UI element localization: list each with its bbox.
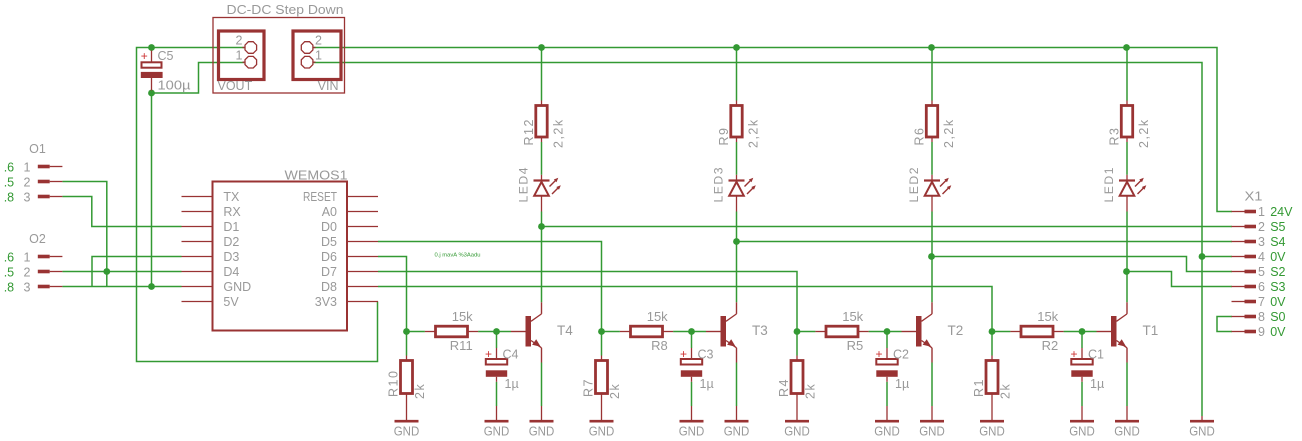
wire base row R5 left: [796, 332, 798, 356]
junction at 151,286: [148, 283, 155, 290]
LED LED2 cathode bar: [924, 179, 940, 181]
svg-text:R1: R1: [972, 378, 986, 397]
wire O2 pin2 to WEMOS D4: [62, 271, 181, 273]
svg-text:2,2k: 2,2k: [552, 118, 566, 148]
connector VOUT box: [219, 31, 265, 80]
svg-text:2k: 2k: [608, 383, 622, 399]
ground below R10: [395, 420, 419, 423]
svg-text:R2: R2: [1042, 338, 1059, 353]
resistor R9 body: [731, 106, 742, 138]
svg-text:GND: GND: [724, 425, 750, 439]
ground below C4: [496, 406, 498, 420]
LED LED2 arrows: [940, 180, 947, 187]
wire GND row O2 pin3 to WEMOS GND: [62, 286, 181, 288]
svg-text:.5: .5: [4, 175, 14, 189]
transistor T4 base bar: [526, 316, 532, 347]
LED LED4 pins: [541, 175, 543, 181]
pin WEMOS1 GND: [182, 286, 213, 288]
wire 24V rail to R9: [736, 48, 738, 101]
svg-text:2k: 2k: [999, 383, 1013, 399]
svg-text:1µ: 1µ: [1090, 377, 1104, 391]
pin WEMOS1 D3: [182, 256, 213, 258]
resistor R2 body: [1021, 326, 1053, 337]
pin X1 3 net S4: [1232, 241, 1245, 243]
capacitor C2 negative plate: [876, 370, 897, 377]
capacitor C3 bottom pin: [691, 377, 693, 382]
transistor T1 collector pin: [1126, 302, 1128, 314]
svg-text:+: +: [141, 49, 148, 63]
svg-text:D8: D8: [321, 280, 337, 294]
wire X1 pin4 0V stub: [1202, 256, 1232, 258]
svg-text:VOUT: VOUT: [218, 79, 253, 93]
pin WEMOS1 D0: [347, 226, 378, 228]
LED LED2 triangle: [925, 182, 940, 196]
resistor R12 pins: [541, 101, 543, 106]
pin WEMOS1 3V3: [347, 301, 378, 303]
transistor T2 collector pin: [931, 302, 933, 314]
LED LED4 triangle: [534, 182, 549, 196]
wire T4 emitter to GND: [541, 363, 543, 407]
resistor R7 pins: [601, 356, 603, 361]
svg-text:GND: GND: [223, 280, 251, 294]
junction at 1126,271: [1123, 268, 1130, 275]
svg-text:.6: .6: [4, 160, 14, 174]
svg-text:T3: T3: [752, 323, 768, 338]
svg-text:1: 1: [236, 49, 243, 63]
svg-text:A0: A0: [322, 205, 337, 219]
resistor R6 body: [926, 106, 937, 138]
wire S5 net T4 collector to X1 pin2: [542, 226, 1233, 228]
LED LED3 triangle: [729, 182, 744, 196]
svg-text:D7: D7: [321, 265, 337, 279]
svg-text:2: 2: [1258, 220, 1265, 234]
wire base row R11 left: [406, 332, 408, 356]
svg-text:D4: D4: [223, 265, 239, 279]
svg-text:D2: D2: [223, 235, 239, 249]
pin WEMOS1 D2: [182, 241, 213, 243]
junction at 541,47: [538, 44, 545, 51]
ground 0V right: [1201, 416, 1203, 420]
pad VOUT 1: [243, 61, 245, 63]
wire 0V rail from DC-DC VIN pin1 to right side down to GND: [314, 63, 1202, 417]
resistor R7 body: [596, 361, 608, 394]
svg-text:GND: GND: [979, 425, 1005, 439]
wire S2 net T2 collector to X1 pin5: [932, 257, 1233, 272]
wire WEMOS D3 to left riser: [92, 257, 182, 287]
svg-text:GND: GND: [1069, 425, 1095, 439]
junction at 1126,47: [1123, 44, 1130, 51]
svg-text:3V3: 3V3: [315, 295, 337, 309]
resistor R8 body: [631, 326, 663, 337]
pin X1 7 net 0V: [1232, 301, 1245, 303]
wire C5 bottom down to GND net row: [151, 93, 153, 287]
capacitor C1 negative plate: [1071, 370, 1092, 377]
ground below T1: [1126, 406, 1128, 420]
wire base row R2 left: [991, 332, 993, 356]
LED LED4 arrows: [550, 180, 557, 187]
pad VIN 1: [313, 61, 315, 63]
pin WEMOS1 D8: [347, 286, 378, 288]
wire R6 to LED2: [931, 142, 933, 175]
wire C2 bottom to GND: [886, 382, 888, 406]
wire base row R11 right to T4 base: [478, 331, 511, 333]
LED LED2 pins: [931, 175, 933, 181]
svg-text:.8: .8: [4, 280, 14, 294]
module DC1 outline DC-DC Step Down: [213, 18, 345, 94]
transistor T2 emitter: [922, 341, 933, 348]
svg-text:GND: GND: [529, 425, 555, 439]
svg-text:2: 2: [24, 265, 31, 279]
ground below T3: [736, 406, 738, 420]
svg-text:O1: O1: [29, 142, 46, 156]
pin WEMOS1 D7: [347, 271, 378, 273]
pin WEMOS1 D1: [182, 226, 213, 228]
wire O1 pin3 to WEMOS D1: [62, 197, 181, 227]
wire 24V rail to R12: [541, 48, 543, 101]
svg-text:6: 6: [1258, 280, 1265, 294]
svg-text:15k: 15k: [452, 309, 473, 324]
wire C3 bottom to GND: [691, 382, 693, 406]
svg-text:15k: 15k: [1037, 309, 1058, 324]
capacitor C4 top pin: [496, 348, 498, 359]
wire T2 emitter to GND: [931, 363, 933, 407]
wire R12 to LED4: [541, 142, 543, 175]
transistor T3 base pin: [706, 331, 721, 333]
svg-text:S0: S0: [1270, 310, 1285, 324]
pin WEMOS1 A0: [347, 211, 378, 213]
svg-text:RX: RX: [223, 205, 241, 219]
svg-text:DC-DC Step Down: DC-DC Step Down: [227, 2, 344, 17]
wire LED2 cathode down to T2 collector: [931, 212, 933, 303]
wire C3 top: [691, 332, 693, 349]
wire C5 bottom to VOUT pin1: [152, 63, 245, 94]
svg-text:9: 9: [1258, 325, 1265, 339]
capacitor C5 positive plate: [142, 62, 162, 67]
transistor T4 collector pin: [541, 302, 543, 314]
svg-text:S4: S4: [1270, 235, 1285, 249]
svg-text:1µ: 1µ: [895, 377, 909, 391]
resistor R4 body: [791, 361, 803, 394]
svg-text:1: 1: [1258, 205, 1265, 219]
capacitor C3 negative plate: [681, 370, 702, 377]
svg-text:T4: T4: [557, 323, 573, 338]
pin O2 3 net .8: [38, 285, 50, 289]
svg-text:2,2k: 2,2k: [747, 118, 761, 148]
resistor R10 pins: [406, 356, 408, 361]
svg-text:R9: R9: [717, 127, 731, 146]
junction at 1201.5,256: [1199, 253, 1206, 260]
svg-text:0V: 0V: [1270, 325, 1286, 339]
transistor T3 collector pin: [736, 302, 738, 314]
junction at 991.5,331: [989, 328, 996, 335]
wire base row R8 right to T3 base: [673, 331, 706, 333]
svg-text:X1: X1: [1245, 190, 1263, 204]
wire R3 to LED1: [1126, 142, 1128, 175]
capacitor C3 top pin: [691, 348, 693, 359]
junction at 496,331: [493, 328, 500, 335]
resistor R5 pins: [815, 331, 826, 333]
svg-text:LED4: LED4: [517, 166, 531, 203]
resistor R6 pins: [931, 101, 933, 106]
svg-text:S5: S5: [1270, 220, 1285, 234]
svg-text:7: 7: [1258, 295, 1265, 309]
svg-text:1: 1: [315, 49, 322, 63]
svg-text:LED2: LED2: [907, 166, 921, 203]
resistor R9 pins: [736, 101, 738, 106]
pin X1 9 net 0V: [1232, 331, 1245, 333]
svg-text:T2: T2: [948, 323, 964, 338]
svg-text:2k: 2k: [804, 383, 818, 399]
capacitor C2 bottom pin: [886, 377, 888, 382]
resistor R4 pins: [796, 356, 798, 361]
junction at 151,47: [148, 44, 155, 51]
ground below C2: [886, 406, 888, 420]
pin WEMOS1 D6: [347, 256, 378, 258]
svg-text:R5: R5: [847, 338, 864, 353]
pad VIN 2: [313, 47, 315, 49]
transistor T4 base pin: [511, 331, 526, 333]
svg-text:0.j mavA %3Aadu: 0.j mavA %3Aadu: [435, 253, 481, 259]
svg-text:1µ: 1µ: [505, 377, 519, 391]
svg-text:C1: C1: [1088, 348, 1104, 362]
transistor T1 base bar: [1111, 316, 1117, 347]
capacitor C1 bottom pin: [1081, 377, 1083, 382]
wire C1 top: [1081, 332, 1083, 349]
resistor R8 pins: [620, 331, 631, 333]
wire base row R8 left: [601, 332, 603, 356]
pin O2 1 net .6: [38, 255, 50, 259]
LED LED3 cathode bar: [729, 179, 745, 181]
resistor R10 body: [401, 361, 413, 394]
svg-text:S3: S3: [1270, 280, 1285, 294]
svg-text:GND: GND: [874, 425, 900, 439]
svg-text:R6: R6: [913, 127, 927, 146]
wire O1 pin2 riser: [62, 182, 106, 287]
ground below R7: [590, 420, 614, 423]
svg-text:D5: D5: [321, 235, 337, 249]
wire C4 top: [496, 332, 498, 349]
svg-text:.6: .6: [4, 250, 14, 264]
svg-text:C4: C4: [503, 348, 519, 362]
svg-text:WEMOS1: WEMOS1: [285, 168, 348, 183]
svg-text:VIN: VIN: [318, 79, 339, 93]
capacitor C2 positive plate: [876, 359, 897, 365]
svg-text:T1: T1: [1143, 323, 1159, 338]
wire C4 bottom to GND: [496, 382, 498, 406]
LED LED3 arrows: [745, 180, 752, 187]
wire X1 pin8 to pin9 S0 loop: [1217, 317, 1232, 332]
wire base row R5 right to T2 base: [869, 331, 902, 333]
svg-text:S2: S2: [1270, 265, 1285, 279]
resistor R2 pins: [1010, 331, 1021, 333]
resistor R11 body: [436, 326, 468, 337]
capacitor C4 negative plate: [486, 370, 507, 377]
svg-text:2k: 2k: [413, 383, 427, 399]
ground below C3: [691, 406, 693, 420]
connector VIN box: [293, 31, 341, 80]
svg-text:2: 2: [315, 34, 322, 48]
svg-text:D0: D0: [321, 220, 337, 234]
svg-text:D1: D1: [223, 220, 239, 234]
junction at 406,331: [403, 328, 410, 335]
pad VOUT 2: [243, 47, 245, 49]
pin X1 1 net 24V: [1232, 211, 1245, 213]
svg-text:1: 1: [24, 250, 31, 264]
svg-text:.8: .8: [4, 190, 14, 204]
svg-text:GND: GND: [394, 425, 420, 439]
wire WEMOS D7 to T2 base column: [378, 272, 797, 332]
svg-text:2: 2: [236, 34, 243, 48]
resistor R3 body: [1121, 106, 1132, 138]
pin X1 6 net S3: [1232, 286, 1245, 288]
junction at 691,331: [688, 328, 695, 335]
wire S4 net T3 collector to X1 pin3: [737, 241, 1233, 243]
resistor R1 body: [986, 361, 998, 394]
svg-text:15k: 15k: [647, 309, 668, 324]
svg-text:GND: GND: [784, 425, 810, 439]
svg-text:LED3: LED3: [712, 166, 726, 203]
transistor T2 base bar: [916, 316, 922, 347]
wire T3 emitter to GND: [736, 363, 738, 407]
junction at 736,241: [733, 238, 740, 245]
junction at 736,47: [733, 44, 740, 51]
LED LED1 pins: [1126, 175, 1128, 181]
svg-text:2,2k: 2,2k: [1137, 118, 1151, 148]
junction at 601,331: [598, 328, 605, 335]
wire WEMOS D5 to T3 base column: [378, 242, 602, 332]
svg-text:GND: GND: [1189, 425, 1215, 439]
capacitor C4 bottom pin: [496, 377, 498, 382]
capacitor C3 positive plate: [681, 359, 702, 365]
junction at 796.5,331: [794, 328, 801, 335]
junction at 931,256: [928, 253, 935, 260]
svg-text:LED1: LED1: [1102, 166, 1116, 203]
transistor T4 emitter: [531, 341, 542, 348]
pin O1 3 net .8: [38, 195, 50, 199]
svg-text:3: 3: [24, 190, 31, 204]
transistor T1 base pin: [1097, 331, 1112, 333]
junction at 151,92.5: [148, 90, 155, 97]
svg-text:R8: R8: [651, 338, 668, 353]
wire LED3 cathode down to T3 collector: [736, 212, 738, 303]
wire WEMOS D8 to T1 base column: [378, 287, 992, 332]
resistor R11 pins: [425, 331, 436, 333]
junction at 106.3,271: [103, 268, 110, 275]
LED LED1 cathode bar: [1119, 179, 1135, 181]
wire 24V rail top-left to DC-DC VOUT and down-left feed: [137, 48, 378, 362]
svg-text:GND: GND: [1114, 425, 1140, 439]
pin WEMOS1 5V: [182, 301, 213, 303]
svg-text:1: 1: [24, 160, 31, 174]
svg-text:R11: R11: [450, 338, 473, 353]
junction at 1081.5,331: [1079, 328, 1086, 335]
wire T1 emitter to GND: [1126, 363, 1128, 407]
pin X1 8 net S0: [1232, 316, 1245, 318]
ground below T2: [931, 406, 933, 420]
ground below T4: [541, 406, 543, 420]
wire R9 to LED3: [736, 142, 738, 175]
pin O2 2 net .5: [38, 270, 50, 274]
LED LED1 triangle: [1120, 182, 1135, 196]
svg-text:R10: R10: [387, 370, 401, 397]
module WEMOS1 box: [213, 182, 348, 331]
wire WEMOS D6 to T4 base column: [378, 257, 407, 332]
svg-text:2,2k: 2,2k: [942, 118, 956, 148]
pin O1 1 net .6: [38, 165, 50, 169]
transistor T3 base bar: [721, 316, 727, 347]
wire 24V rail to R3: [1126, 48, 1128, 101]
svg-text:5: 5: [1258, 265, 1265, 279]
svg-text:D6: D6: [321, 250, 337, 264]
ground below R4: [785, 420, 809, 423]
svg-text:R4: R4: [777, 378, 791, 397]
LED LED4 cathode bar: [534, 179, 550, 181]
resistor R3 pins: [1126, 101, 1128, 106]
resistor R1 pins: [991, 356, 993, 361]
wire 24V rail to R6: [931, 48, 933, 101]
capacitor C1 positive plate: [1071, 359, 1092, 365]
pin WEMOS1 RESET: [347, 196, 378, 198]
svg-text:1µ: 1µ: [700, 377, 714, 391]
pin X1 2 net S5: [1232, 226, 1245, 228]
capacitor C5 top pin: [151, 51, 153, 63]
svg-text:R3: R3: [1108, 127, 1122, 146]
capacitor C2 top pin: [886, 348, 888, 359]
LED LED3 pins: [736, 175, 738, 181]
wire 24V rail from DC-DC VIN to X1 pin1: [314, 48, 1232, 212]
junction at 541,226: [538, 223, 545, 230]
wire S3 net T1 collector to X1 pin6: [1127, 272, 1233, 287]
svg-text:R12: R12: [522, 118, 536, 145]
svg-text:D3: D3: [223, 250, 239, 264]
pin WEMOS1 TX: [182, 196, 213, 198]
svg-text:TX: TX: [223, 190, 240, 204]
junction at 886.5,331: [884, 328, 891, 335]
pin X1 4 net 0V: [1232, 256, 1245, 258]
ground below R1: [980, 420, 1004, 423]
svg-text:GND: GND: [679, 425, 705, 439]
svg-text:GND: GND: [919, 425, 945, 439]
svg-text:GND: GND: [589, 425, 615, 439]
pin X1 5 net S2: [1232, 271, 1245, 273]
capacitor C5 bottom pin: [151, 78, 153, 91]
svg-text:.5: .5: [4, 265, 14, 279]
svg-text:0V: 0V: [1270, 295, 1286, 309]
svg-text:2: 2: [24, 175, 31, 189]
pin WEMOS1 RX: [182, 211, 213, 213]
svg-text:C2: C2: [893, 348, 909, 362]
wire C1 bottom to GND: [1081, 382, 1083, 406]
wire base row R2 right to T1 base: [1064, 331, 1097, 333]
pin O1 2 net .5: [38, 180, 50, 184]
svg-text:C3: C3: [698, 348, 714, 362]
pin WEMOS1 D5: [347, 241, 378, 243]
svg-text:100µ: 100µ: [158, 79, 191, 93]
ground below C1: [1081, 406, 1083, 420]
wire LED4 cathode down to T4 collector: [541, 212, 543, 303]
transistor T1 emitter: [1117, 341, 1128, 348]
junction at 931,47: [928, 44, 935, 51]
svg-text:GND: GND: [484, 425, 510, 439]
transistor T3 emitter: [726, 341, 737, 348]
wire LED1 cathode down to T1 collector: [1126, 212, 1128, 303]
svg-text:8: 8: [1258, 310, 1265, 324]
svg-text:4: 4: [1258, 250, 1265, 264]
svg-text:3: 3: [1258, 235, 1265, 249]
capacitor C1 top pin: [1081, 348, 1083, 359]
capacitor C5 negative plate: [141, 72, 163, 78]
svg-text:O2: O2: [29, 232, 46, 246]
